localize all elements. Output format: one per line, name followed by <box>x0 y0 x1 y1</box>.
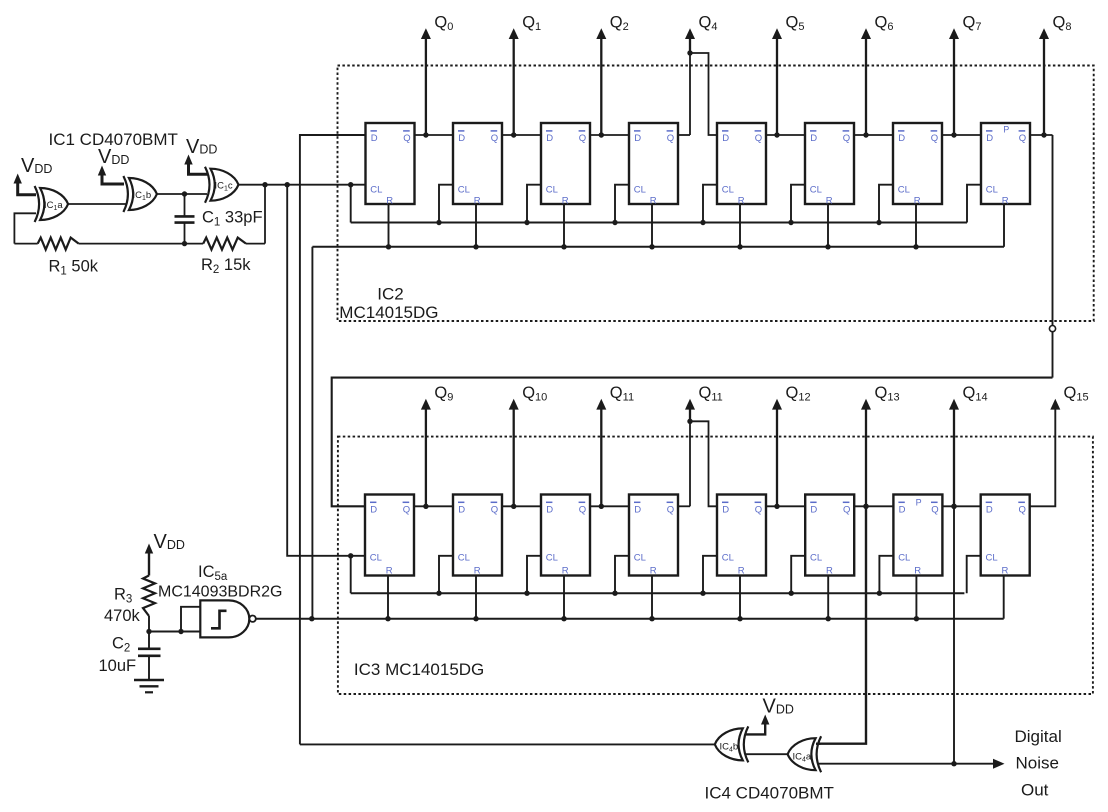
svg-text:MC14093BDR2G: MC14093BDR2G <box>158 584 283 601</box>
IC2 package outline (dashed) <box>338 66 1094 322</box>
wire IC2 clock bus <box>351 185 967 223</box>
XOR gate IC1b <box>123 176 156 212</box>
svg-text:CL: CL <box>986 184 998 195</box>
wire IC2 FF3 Q to FF4 D, node Q2 <box>590 132 629 137</box>
svg-text:IC1 CD4070BMT: IC1 CD4070BMT <box>49 130 178 149</box>
svg-text:CL: CL <box>898 553 910 564</box>
wire IC2 FF4 CL stub <box>612 185 629 226</box>
wire jog above box into IC3 FF5 D <box>690 421 717 506</box>
ground symbol <box>134 680 164 692</box>
flip-flop IC2 FF8 <box>981 123 1030 207</box>
svg-text:Noise: Noise <box>1016 754 1059 773</box>
wire IC3 FF5 R drop <box>737 576 742 622</box>
wire clock net: IC1c output to IC2 FF1 CL <box>239 182 366 187</box>
output Q9 arrow and label <box>421 384 453 506</box>
output Q8 arrow and label <box>1039 14 1071 135</box>
wire feedback into IC2 FF1 D input <box>300 135 366 744</box>
svg-text:CL: CL <box>370 184 382 195</box>
capacitor C2 <box>138 632 161 681</box>
flip-flop IC3 FF3 <box>541 495 590 577</box>
flip-flop IC3 FF2 <box>453 495 502 577</box>
resistor R3 <box>143 576 155 635</box>
wire IC5a output / IC3 reset bus <box>256 616 1004 621</box>
label R3 <box>114 586 132 606</box>
XOR gate IC4a (mirrored) <box>788 736 822 772</box>
svg-text:Q: Q <box>931 504 938 515</box>
label IC5a <box>198 563 228 583</box>
svg-text:R: R <box>386 196 393 207</box>
wire IC3 FF8 R drop <box>1003 576 1005 619</box>
output Q1 arrow and label <box>509 14 541 135</box>
svg-text:D: D <box>370 504 377 515</box>
label R1 50k <box>49 258 99 278</box>
wire IC3 FF4 Q to Q11 node (routed above box) <box>678 421 690 506</box>
svg-text:IC1c: IC1c <box>215 181 233 193</box>
wire IC2 FF2 R drop <box>473 204 478 250</box>
power VDD arrow (IC1a) <box>14 155 53 195</box>
wire IC2 FF5 CL stub <box>700 185 717 226</box>
svg-text:R: R <box>738 196 745 207</box>
svg-text:CL: CL <box>722 553 734 564</box>
output Q4 arrow and label <box>685 14 717 56</box>
svg-text:10uF: 10uF <box>99 657 137 675</box>
wire IC3 FF2 R drop <box>473 576 478 622</box>
wire IC4a output to IC4b input <box>745 753 788 755</box>
wire IC3 FF6 R drop <box>826 576 831 622</box>
wire IC3 FF1 Q to FF2 D, node Q9 <box>414 504 453 509</box>
label IC3 MC14015DG <box>354 660 484 679</box>
connector circle on Q8 feedback <box>1049 326 1055 332</box>
svg-text:R: R <box>1002 566 1009 577</box>
label C2 <box>112 634 130 654</box>
svg-text:Q: Q <box>843 133 850 144</box>
svg-text:R: R <box>1002 196 1009 207</box>
svg-text:R: R <box>738 566 745 577</box>
wire IC3 FF2 CL stub <box>436 556 453 596</box>
label Digital Noise Out <box>1015 727 1062 800</box>
svg-text:Q: Q <box>1019 504 1026 515</box>
wire R3/C2 node to IC5a inputs <box>149 607 200 634</box>
capacitor C1 <box>175 194 195 244</box>
IC3 package outline (dashed) <box>338 437 1093 694</box>
wire Q14 tap down to output node <box>951 504 956 767</box>
wire IC2 FF4 Q to Q4 node (routed above box) <box>678 53 690 135</box>
svg-text:P: P <box>1003 125 1009 135</box>
wire IC2 FF8 R drop <box>1003 204 1005 247</box>
wire IC4a upper input from Q13 <box>816 743 821 745</box>
wire IC2 FF6 Q to FF7 D, node Q6 <box>854 132 893 137</box>
wire IC3 FF6 CL stub <box>789 556 806 596</box>
wire IC1a output to IC1b input <box>68 203 125 205</box>
wire IC2 FF1 R drop <box>386 204 391 250</box>
label R2 15k <box>201 256 251 276</box>
svg-text:Q: Q <box>667 133 674 144</box>
wire IC3 FF7 CL stub <box>877 556 894 596</box>
wire IC2 FF1 Q to FF2 D, node Q0 <box>415 132 454 137</box>
wire IC2 FF5 R drop <box>737 204 742 250</box>
wire IC2 FF7 Q to FF8 D, node Q7 <box>942 132 981 137</box>
wire IC3 FF8 CL stub <box>967 556 981 593</box>
svg-text:D: D <box>899 504 906 515</box>
flip-flop IC3 FF4 <box>629 495 678 577</box>
flip-flop IC3 FF5 <box>717 495 766 577</box>
power VDD arrow (R3) <box>145 531 185 575</box>
wire IC2 reset bus <box>312 246 1004 248</box>
wire IC2 FF7 CL stub <box>876 185 893 226</box>
flip-flop IC2 FF3 <box>541 123 590 207</box>
output Q7 arrow and label <box>949 14 981 135</box>
svg-text:CL: CL <box>634 553 646 564</box>
flip-flop IC2 FF4 <box>629 123 678 207</box>
wire IC3 FF2 Q to FF3 D, node Q10 <box>502 504 541 509</box>
svg-text:R: R <box>562 566 569 577</box>
wire IC2 FF8 CL stub <box>967 185 981 223</box>
wire IC3 FF1 R drop <box>385 576 390 622</box>
wire clock feed down to IC3 <box>287 185 365 556</box>
flip-flop IC3 FF8 <box>981 495 1030 577</box>
svg-text:CL: CL <box>546 184 558 195</box>
flip-flop IC2 FF6 <box>805 123 854 207</box>
svg-text:D: D <box>458 504 465 515</box>
svg-text:R: R <box>562 196 569 207</box>
flip-flop IC3 FF6 <box>805 495 854 577</box>
svg-text:Q: Q <box>667 504 674 515</box>
IC4 section <box>300 696 1062 803</box>
label IC4 CD4070BMT <box>705 784 834 803</box>
svg-text:D: D <box>986 133 993 144</box>
label 470k <box>104 607 141 625</box>
wire IC3 FF3 CL stub <box>524 556 541 596</box>
svg-text:CL: CL <box>986 553 998 564</box>
wire IC4b output feedback (long) <box>300 743 715 745</box>
output Q0 arrow and label <box>421 14 453 135</box>
svg-text:R2 15k: R2 15k <box>201 256 251 276</box>
flip-flop IC2 FF5 <box>717 123 766 207</box>
svg-text:R: R <box>914 196 921 207</box>
output Q13 arrow and label <box>861 384 900 506</box>
svg-text:Q: Q <box>491 133 498 144</box>
svg-text:R: R <box>474 196 481 207</box>
label MC14015DG (IC2) <box>339 303 438 322</box>
output Q12 arrow and label <box>772 384 811 506</box>
wire IC3 FF7 R drop <box>914 576 919 622</box>
wire IC3 clock bus <box>348 553 964 593</box>
resistor R1 <box>14 238 187 250</box>
svg-text:R: R <box>914 566 921 577</box>
flip-flop IC3 FF1 <box>365 495 414 577</box>
label 10uF <box>99 657 137 675</box>
wire IC2 FF2 Q to FF3 D, node Q1 <box>502 132 541 137</box>
svg-text:D: D <box>634 133 641 144</box>
resistor R2 <box>185 238 266 250</box>
wire IC2 FF6 CL stub <box>788 185 805 226</box>
svg-text:CL: CL <box>810 184 822 195</box>
label IC2 <box>377 284 403 303</box>
output Q10 arrow and label <box>509 384 548 506</box>
svg-text:IC4b: IC4b <box>720 742 739 754</box>
svg-text:D: D <box>546 504 553 515</box>
label C1 33pF <box>202 209 263 229</box>
wire IC3 FF4 R drop <box>649 576 654 622</box>
svg-text:D: D <box>722 504 729 515</box>
wire IC4a lower input / digital noise out <box>818 759 1005 769</box>
wire IC3 FF4 CL stub <box>612 556 629 596</box>
NAND gate IC5a (schmitt) <box>200 600 256 637</box>
wire IC3 FF3 Q to FF4 D, node Q11 <box>590 504 629 509</box>
svg-text:C1 33pF: C1 33pF <box>202 209 263 229</box>
svg-text:R: R <box>650 566 657 577</box>
wire Q13 tap down to IC4a input <box>816 504 869 744</box>
wire IC2 FF3 CL stub <box>524 185 541 226</box>
power VDD arrow (IC4b input) <box>746 696 794 735</box>
svg-text:D: D <box>810 133 817 144</box>
svg-text:R: R <box>826 196 833 207</box>
svg-text:D: D <box>371 133 378 144</box>
svg-text:Digital: Digital <box>1015 727 1062 746</box>
svg-text:470k: 470k <box>104 607 141 625</box>
output Q11 arrow and label <box>596 384 634 506</box>
flip-flop IC2 FF1 <box>366 123 415 207</box>
flip-flop IC2 FF2 <box>453 123 502 207</box>
IC5a section <box>99 531 283 692</box>
svg-text:MC14015DG: MC14015DG <box>339 303 438 322</box>
wire IC3 FF5 Q to FF6 D, node Q12 <box>766 504 805 509</box>
label MC14093BDR2G <box>158 584 283 601</box>
svg-text:IC2: IC2 <box>377 284 403 303</box>
svg-text:CL: CL <box>458 553 470 564</box>
wire IC1a lower input feedback <box>14 213 36 243</box>
wire IC2 FF2 CL stub <box>436 185 453 226</box>
wire reset link from IC5a output up to IC2 reset bus <box>311 247 313 619</box>
wire IC3 FF8 Q output to Q15 <box>1030 399 1061 507</box>
svg-text:CL: CL <box>546 553 558 564</box>
svg-text:CL: CL <box>634 184 646 195</box>
wire IC3 FF6 Q to FF7 D, node Q13 <box>854 504 893 509</box>
wire IC2 FF8 Q output, node Q8 <box>1030 132 1053 137</box>
svg-text:D: D <box>810 504 817 515</box>
wire IC2 FF4 R drop <box>649 204 654 250</box>
wire R2 up to clock node <box>262 182 267 244</box>
wire IC2 FF6 R drop <box>825 204 830 250</box>
wire jog above box into IC2 FF5 D <box>690 53 717 135</box>
wire IC2 FF7 R drop <box>913 204 918 250</box>
svg-text:R: R <box>826 566 833 577</box>
svg-text:CL: CL <box>898 184 910 195</box>
svg-text:D: D <box>898 133 905 144</box>
svg-text:Q: Q <box>491 504 498 515</box>
svg-text:R1 50k: R1 50k <box>49 258 99 278</box>
power VDD arrow (IC1b) <box>98 146 130 184</box>
power VDD arrow (IC1c) <box>184 136 217 175</box>
svg-text:Q: Q <box>403 133 410 144</box>
wire IC3 FF7 Q to FF8 D, node Q14 <box>942 504 980 509</box>
XOR gate IC4b (mirrored) <box>715 726 749 762</box>
svg-text:D: D <box>546 133 553 144</box>
flip-flop IC3 FF7 <box>893 495 942 577</box>
svg-text:IC3 MC14015DG: IC3 MC14015DG <box>354 660 484 679</box>
svg-text:Q: Q <box>579 504 586 515</box>
svg-text:D: D <box>634 504 641 515</box>
svg-text:CL: CL <box>458 184 470 195</box>
svg-text:Q: Q <box>755 133 762 144</box>
output Q5 arrow and label <box>772 14 804 135</box>
output Q6 arrow and label <box>861 14 893 135</box>
svg-text:R: R <box>386 566 393 577</box>
svg-text:Q: Q <box>843 504 850 515</box>
svg-text:CL: CL <box>370 553 382 564</box>
wire IC1b output to IC1c input, node C1 top <box>157 191 207 196</box>
label IC1 CD4070BMT <box>49 130 178 149</box>
svg-text:Out: Out <box>1021 781 1049 800</box>
wire IC3 FF5 CL stub <box>700 556 717 596</box>
output Q11 arrow and label <box>685 384 723 424</box>
svg-text:Q: Q <box>755 504 762 515</box>
svg-text:Q: Q <box>931 133 938 144</box>
svg-text:R: R <box>474 566 481 577</box>
svg-text:R: R <box>650 196 657 207</box>
output Q2 arrow and label <box>596 14 628 135</box>
wire IC2 FF5 Q to FF6 D, node Q5 <box>766 132 805 137</box>
svg-text:IC4 CD4070BMT: IC4 CD4070BMT <box>705 784 834 803</box>
svg-text:D: D <box>986 504 993 515</box>
svg-text:CL: CL <box>810 553 822 564</box>
svg-text:IC1b: IC1b <box>133 190 152 202</box>
svg-text:P: P <box>916 497 922 507</box>
flip-flop IC2 FF7 <box>893 123 942 207</box>
svg-text:Q: Q <box>579 133 586 144</box>
label Q15 <box>1064 384 1089 404</box>
wire IC2 FF3 R drop <box>561 204 566 250</box>
svg-text:D: D <box>722 133 729 144</box>
XOR gate IC1c <box>205 167 239 203</box>
output Q14 arrow and label <box>949 384 988 506</box>
svg-text:CL: CL <box>722 184 734 195</box>
wire Q8 feedback down to IC3 FF1 D <box>332 135 1053 506</box>
svg-text:D: D <box>458 133 465 144</box>
wire IC3 FF3 R drop <box>561 576 566 622</box>
svg-text:Q: Q <box>1019 133 1026 144</box>
XOR gate IC1a <box>35 186 69 222</box>
svg-text:Q: Q <box>403 504 410 515</box>
IC1 oscillator section <box>14 130 268 278</box>
